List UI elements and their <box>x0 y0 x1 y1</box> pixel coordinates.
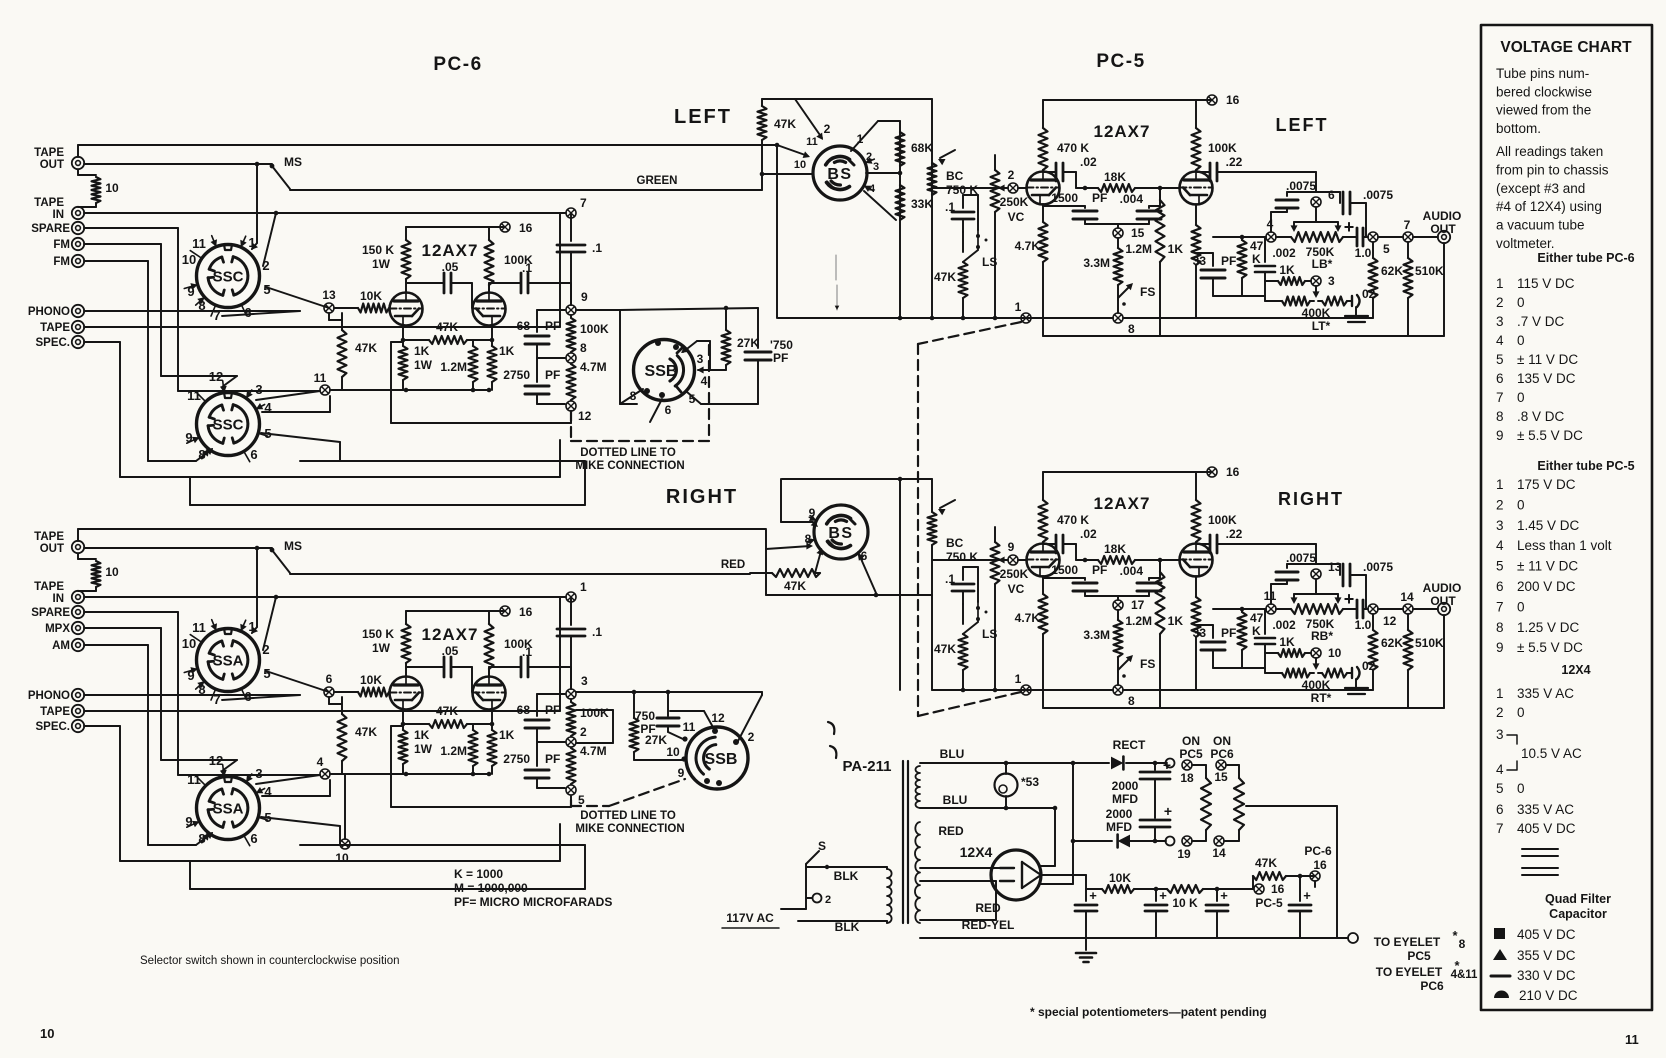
svg-text:+: + <box>1344 217 1355 237</box>
svg-text:PC-5: PC-5 <box>1096 51 1145 72</box>
svg-text:11: 11 <box>683 720 696 734</box>
resistor 4.7K (right) <box>1042 576 1044 594</box>
svg-text:1K: 1K <box>414 728 430 742</box>
resistor 100K plate load V1b (right channel) <box>488 611 490 624</box>
svg-text:0: 0 <box>1517 705 1525 720</box>
svg-text:PF: PF <box>545 752 560 766</box>
pin lead stubs selector top (left channel) <box>212 236 216 247</box>
wire RED bus <box>290 573 750 575</box>
svg-text:1.0: 1.0 <box>1355 246 1372 260</box>
svg-text:.0075: .0075 <box>1286 179 1316 193</box>
svg-text:1K: 1K <box>1168 614 1184 628</box>
svg-text:4: 4 <box>1267 217 1274 231</box>
svg-text:+: + <box>1344 589 1355 609</box>
diode rectifier top <box>1111 757 1123 770</box>
capacitor .0075 left (left) <box>1270 212 1272 232</box>
svg-text:9: 9 <box>1008 540 1015 554</box>
wire .22 to tone section (right) <box>1240 543 1316 545</box>
svg-text:117V AC: 117V AC <box>726 911 774 925</box>
svg-text:10K: 10K <box>360 289 382 303</box>
svg-text:10: 10 <box>40 1026 54 1041</box>
wire 12X4 heater leads <box>920 867 1000 869</box>
jack AUDIO OUT (left) <box>1438 231 1450 243</box>
resistor 18K (left) <box>1085 187 1098 189</box>
svg-text:1.2M: 1.2M <box>440 744 467 758</box>
svg-text:from pin to chassis: from pin to chassis <box>1496 162 1609 177</box>
resistor 27K (lower SSB) <box>633 692 635 718</box>
svg-text:17: 17 <box>1131 598 1145 612</box>
wire jack5 down (right channel) <box>84 644 148 646</box>
svg-text:4: 4 <box>1496 333 1504 348</box>
svg-text:LEFT: LEFT <box>674 106 732 128</box>
svg-text:TO EYELET: TO EYELET <box>1374 935 1441 949</box>
svg-text:4: 4 <box>701 374 708 388</box>
wire verticals BS lower to rail <box>899 595 901 690</box>
svg-text:4&11: 4&11 <box>1451 969 1478 981</box>
svg-text:47K: 47K <box>355 341 377 355</box>
svg-text:1.45 V DC: 1.45 V DC <box>1517 518 1580 533</box>
wire selector pin 2 diagonal (left channel) <box>263 213 276 266</box>
svg-text:2: 2 <box>580 725 587 739</box>
wire selector bottom pin3 (right channel) <box>256 775 320 784</box>
eyelet 6 (left) <box>1311 197 1321 207</box>
input jack TAPE (left channel) <box>72 321 84 333</box>
svg-text:8: 8 <box>1496 409 1504 424</box>
wire grid eyelet drop (right channel) <box>328 697 330 704</box>
input jack SPARE (right channel) <box>72 606 84 618</box>
wire BS lower pin 8 <box>766 546 810 549</box>
resistor 10 tape monitor (left channel) <box>77 170 79 175</box>
wire cathode V1b down (right channel) <box>491 709 493 724</box>
resistor 100K plate load V1b (left channel) <box>488 227 490 240</box>
svg-text:(except #3 and: (except #3 and <box>1496 181 1585 196</box>
wire top bus diagonal into BS pin 11 <box>777 145 808 156</box>
chassis double line (right) <box>1345 687 1368 689</box>
wire BC lower wiper to VC <box>933 559 955 561</box>
eyelet 19 <box>1182 836 1192 846</box>
resistor 3.3M (left) <box>1117 238 1119 248</box>
resistor 47K below LS (right) <box>959 634 968 670</box>
wire bottom rail to eyelet right <box>1347 937 1349 939</box>
resistor 1K tone (left) <box>1265 280 1278 282</box>
svg-text:1W: 1W <box>414 742 433 756</box>
svg-text:68K: 68K <box>911 141 933 155</box>
svg-text:115 V DC: 115 V DC <box>1517 276 1575 291</box>
wire TAPE OUT to MS switch (left channel) <box>84 163 272 165</box>
wire TAPE OUT to top bus (right channel) <box>77 529 79 541</box>
wire 1K bottom (left) <box>1195 265 1197 318</box>
resistor 18K (right) <box>1085 559 1098 561</box>
svg-text:4: 4 <box>1496 762 1504 777</box>
resistor 1K tone (right) <box>1265 652 1278 654</box>
capacitor 1500 PF (right) <box>1042 576 1044 578</box>
svg-text:± 11 V DC: ± 11 V DC <box>1517 559 1578 574</box>
wire SSB lower pin 12 lead <box>670 710 704 712</box>
tube SSB (upper) <box>634 340 695 401</box>
svg-text:PF: PF <box>545 368 560 382</box>
wire SPARE down (right channel) <box>84 611 178 613</box>
capacitor 68 PF (right channel) <box>537 693 565 695</box>
svg-text:BLU: BLU <box>943 793 968 807</box>
svg-text:10: 10 <box>105 181 119 195</box>
svg-text:1: 1 <box>1496 686 1504 701</box>
svg-text:9: 9 <box>1496 428 1504 443</box>
svg-text:VC: VC <box>1008 582 1025 596</box>
svg-text:RIGHT: RIGHT <box>1278 489 1344 509</box>
quad filter legend triangle 355 <box>1493 949 1507 960</box>
eyelet 9 input (PC-5 right) <box>1008 555 1018 565</box>
switch FS (right) <box>1117 657 1119 672</box>
wire SSB pin6 lead <box>650 399 662 422</box>
resistor 33K <box>896 185 905 220</box>
switch FS (left) <box>1117 285 1119 300</box>
wire to selector pin 1 (left channel) <box>256 164 258 243</box>
eyelet 16 (left) <box>1207 95 1217 105</box>
SSB lower wafer arcs <box>696 737 715 774</box>
svg-text:175 V DC: 175 V DC <box>1517 477 1576 492</box>
input jack SPEC. (left channel) <box>72 336 84 348</box>
wire SSB pin3 lead <box>683 341 697 352</box>
svg-text:47K: 47K <box>774 117 796 131</box>
wire eyelet9 to SSB rail <box>576 309 620 311</box>
svg-text:3: 3 <box>255 382 262 397</box>
svg-text:.004: .004 <box>1120 192 1144 206</box>
svg-text:OUT: OUT <box>40 543 64 555</box>
svg-text:6: 6 <box>665 403 672 417</box>
svg-text:SPEC.: SPEC. <box>35 337 70 349</box>
svg-text:PF= MICRO MICROFARADS: PF= MICRO MICROFARADS <box>454 895 612 909</box>
resistor 47K cathode link (right channel) <box>429 720 467 728</box>
svg-text:DOTTED LINE TO: DOTTED LINE TO <box>580 810 676 822</box>
svg-text:RB*: RB* <box>1311 629 1333 643</box>
eyelet 8 (left channel) <box>566 353 576 363</box>
svg-text:.1: .1 <box>522 261 532 275</box>
wire B+ vertical right of BS <box>931 99 933 318</box>
svg-text:K = 1000: K = 1000 <box>454 867 503 881</box>
svg-text:405 V DC: 405 V DC <box>1517 927 1576 942</box>
svg-text:10: 10 <box>182 636 196 651</box>
dashed mike line (lower SSB) <box>570 800 572 806</box>
wire BS top link <box>795 98 932 100</box>
svg-text:470 K: 470 K <box>1057 141 1089 155</box>
resistor 1K cathode V2b (left) <box>1195 204 1197 225</box>
resistor 47K cathode link (left channel) <box>429 336 467 344</box>
wire grid V2b (left) <box>1160 187 1180 189</box>
input jack TAPE OUT (right channel) <box>72 541 84 553</box>
svg-text:3: 3 <box>1496 518 1504 533</box>
input jack PHONO (right channel) <box>72 689 84 701</box>
svg-text:16: 16 <box>1226 465 1240 479</box>
svg-text:'750: '750 <box>770 338 793 352</box>
svg-text:250K: 250K <box>1000 195 1029 209</box>
wire routing box below selector (left channel) <box>189 477 191 505</box>
wire bottom diode to eyelet <box>1128 840 1166 842</box>
svg-text:9: 9 <box>1496 640 1504 655</box>
triode V2b 12AX7 (left) <box>1180 172 1213 205</box>
svg-text:2750: 2750 <box>503 752 530 766</box>
svg-text:4: 4 <box>1496 538 1504 553</box>
wire .22 to tone section (left) <box>1240 171 1316 173</box>
svg-text:62K: 62K <box>1381 636 1403 650</box>
svg-text:2: 2 <box>1496 705 1504 720</box>
resistor 47K feed PC-6 <box>1252 876 1254 889</box>
eyelet 1 ground (right) <box>1021 685 1031 695</box>
input jack MPX (right channel) <box>72 622 84 634</box>
quad filter legend dash 330 <box>1491 975 1510 978</box>
capacitor .02 output (right) <box>1347 672 1352 674</box>
svg-text:ON: ON <box>1182 734 1200 748</box>
svg-text:5: 5 <box>263 282 270 297</box>
eyelet 16 PC-5 feed <box>1254 884 1264 894</box>
svg-text:47: 47 <box>1250 239 1264 253</box>
svg-text:MIKE CONNECTION: MIKE CONNECTION <box>575 460 684 472</box>
svg-text:47K: 47K <box>355 725 377 739</box>
svg-text:LEFT: LEFT <box>1276 115 1329 135</box>
svg-text:Less than 1 volt: Less than 1 volt <box>1517 538 1612 553</box>
capacitor .05 interstage (left channel) <box>406 282 444 284</box>
wire .1 frame (left) <box>963 194 978 196</box>
svg-text:27K: 27K <box>645 733 667 747</box>
capacitor 68 PF (left channel) <box>537 309 565 311</box>
svg-text:SSC: SSC <box>213 269 244 286</box>
svg-text:405 V DC: 405 V DC <box>1517 821 1576 836</box>
svg-text:19: 19 <box>1177 847 1191 861</box>
svg-text:11: 11 <box>1625 1032 1639 1047</box>
svg-text:PF: PF <box>1221 254 1236 268</box>
wire bottom rails (left) <box>1196 317 1373 319</box>
svg-text:12: 12 <box>1383 614 1397 628</box>
svg-text:All readings taken: All readings taken <box>1496 144 1603 159</box>
wire selector bottom pin5 (left channel) <box>261 433 340 442</box>
svg-text:.1: .1 <box>522 645 532 659</box>
capacitor .02 feedback (left) <box>1042 170 1044 172</box>
svg-text:PF: PF <box>1092 191 1107 205</box>
svg-text:SSA: SSA <box>213 801 244 818</box>
svg-text:1: 1 <box>1496 477 1504 492</box>
potentiometer 400K (right) <box>1282 669 1310 678</box>
svg-text:voltmeter.: voltmeter. <box>1496 236 1555 251</box>
svg-text:RED: RED <box>721 559 745 571</box>
svg-text:6: 6 <box>1496 802 1504 817</box>
eyelet 9 out (left channel) <box>566 305 576 315</box>
svg-text:.002: .002 <box>1272 618 1296 632</box>
svg-text:+: + <box>1089 888 1097 903</box>
wire GREEN bus corner up to pin 10 line <box>761 174 763 190</box>
svg-text:2: 2 <box>262 642 269 657</box>
svg-text:.22: .22 <box>1226 527 1243 541</box>
svg-text:250K: 250K <box>1000 567 1029 581</box>
pin lead stubs BS upper <box>865 159 874 163</box>
resistor 68K <box>896 132 905 166</box>
wire 47K bottom to tone rail (left) <box>1242 295 1265 297</box>
svg-text:33: 33 <box>1193 626 1207 640</box>
svg-text:0: 0 <box>1517 497 1525 512</box>
svg-text:750 K: 750 K <box>946 550 978 564</box>
svg-text:+: + <box>1303 888 1311 903</box>
svg-text:OUT: OUT <box>40 159 64 171</box>
triode V1a 12AX7 (right channel) <box>390 677 423 710</box>
resistor 10K grid stopper (left channel) <box>334 307 358 309</box>
wire SSB top rail <box>620 308 758 310</box>
input jack FM (left channel) <box>72 238 84 250</box>
capacitor .22 output coupling (right) <box>1196 543 1210 545</box>
potentiometer 750K (left) <box>1276 236 1291 238</box>
svg-text:PC-6: PC-6 <box>1304 844 1332 858</box>
wire heater rail to right <box>1246 805 1337 807</box>
svg-text:ON: ON <box>1213 734 1231 748</box>
svg-text:PF: PF <box>545 319 560 333</box>
wire 400K left (right) <box>1264 653 1266 673</box>
eyelet 4 (left) <box>1266 232 1276 242</box>
wire SSB pin8 to left vertical <box>620 389 643 404</box>
wire plate V1b out (left channel) <box>488 283 490 293</box>
capacitor .002 (left) <box>1264 237 1266 262</box>
svg-text:200 V DC: 200 V DC <box>1517 579 1576 594</box>
svg-text:33K: 33K <box>911 197 933 211</box>
capacitor 1.0 (left) <box>1343 236 1357 238</box>
750K wiper bracket (left) <box>1315 207 1317 222</box>
wire 12X4 cathode output <box>1041 874 1086 876</box>
svg-text:1K: 1K <box>414 344 430 358</box>
voltage chart panel border <box>1481 25 1652 1010</box>
svg-text:18K: 18K <box>1104 170 1126 184</box>
capacitor 1.0 (right) <box>1343 608 1357 610</box>
input jack SPARE (left channel) <box>72 222 84 234</box>
wire TAPE IN to eyelet (left channel) <box>84 212 566 214</box>
svg-text:330 V DC: 330 V DC <box>1517 968 1576 983</box>
wire BS right vertical 68K/33K <box>899 121 901 318</box>
svg-text:1: 1 <box>248 235 255 250</box>
svg-text:1500: 1500 <box>1051 563 1078 577</box>
resistor 47K below LS (left) <box>959 262 968 298</box>
svg-text:1: 1 <box>1496 276 1504 291</box>
wire 33PF bottom (left) <box>1213 295 1242 297</box>
capacitor .22 output coupling (left) <box>1196 171 1210 173</box>
capacitor 2750 PF (left channel) <box>537 357 565 359</box>
wire primary connections <box>781 908 806 910</box>
svg-text:2: 2 <box>1496 295 1504 310</box>
wire SSB pin5 to cap bottom <box>687 392 701 404</box>
capacitor 33 PF (right) <box>1196 624 1213 626</box>
svg-text:5: 5 <box>1496 559 1504 574</box>
capacitor .004 (left) <box>1148 206 1150 208</box>
svg-text:1.25 V DC: 1.25 V DC <box>1517 620 1580 635</box>
svg-text:PHONO: PHONO <box>28 306 70 318</box>
wire SSB left vertical <box>619 310 621 404</box>
SSB lower pin dots <box>712 728 718 734</box>
jack AUDIO OUT (right) <box>1438 603 1450 615</box>
svg-text:bottom.: bottom. <box>1496 121 1541 136</box>
svg-text:7: 7 <box>1496 599 1504 614</box>
svg-text:RT*: RT* <box>1311 691 1332 705</box>
svg-text:15: 15 <box>1131 226 1145 240</box>
resistor 47K grid leak (left channel) <box>341 313 343 330</box>
svg-text:355 V DC: 355 V DC <box>1517 948 1576 963</box>
wire grid eyelet drop (left channel) <box>328 313 330 320</box>
wire LS bottom (left) <box>963 250 978 262</box>
svg-text:RED: RED <box>938 824 964 838</box>
svg-text:MFD: MFD <box>1112 792 1138 806</box>
wire diode to eyelet <box>1126 762 1166 764</box>
wire TAPE OUT to MS switch (right channel) <box>84 547 272 549</box>
svg-text:8: 8 <box>580 341 587 355</box>
svg-text:± 5.5 V DC: ± 5.5 V DC <box>1517 428 1583 443</box>
wire 68K bottom to BS pin3 <box>866 172 900 174</box>
svg-text:11: 11 <box>806 136 818 148</box>
wire ground rail segments (left) <box>995 317 1021 319</box>
svg-text:7: 7 <box>580 196 587 210</box>
eyelet 6 grid (right channel) <box>324 687 334 697</box>
resistor 4.7M (right channel) <box>567 748 576 784</box>
heater dropping resistor right <box>1234 778 1244 830</box>
wiper arrow BC 750K (lower) <box>940 500 955 508</box>
svg-text:GREEN: GREEN <box>637 175 678 187</box>
resistor 100K plate (right) <box>1192 500 1201 542</box>
chassis double line (left) <box>1345 315 1368 317</box>
rotary selector tube SSC (top, left channel) <box>197 245 260 308</box>
wire SPEC routing (left channel) <box>84 341 120 343</box>
svg-text:1: 1 <box>580 580 587 594</box>
svg-text:VC: VC <box>1008 210 1025 224</box>
svg-text:3: 3 <box>1496 727 1504 742</box>
svg-text:150 K: 150 K <box>362 243 394 257</box>
wire selector pin 5 to grid eyelet (left channel) <box>266 287 329 308</box>
wire top rail lower channel <box>782 478 932 480</box>
eyelet 4 (right channel) <box>320 769 330 779</box>
svg-text:10: 10 <box>335 851 349 865</box>
svg-text:12: 12 <box>209 369 223 384</box>
power transformer core <box>902 761 904 923</box>
svg-text:47K: 47K <box>1255 856 1277 870</box>
svg-text:210 V DC: 210 V DC <box>1519 988 1578 1003</box>
svg-text:16: 16 <box>519 221 533 235</box>
triode V2a 12AX7 (left) <box>1027 172 1060 205</box>
transformer secondary BLU winding <box>916 766 921 808</box>
svg-text:13: 13 <box>322 288 336 302</box>
wire PC-6 16 stub <box>1314 881 1316 887</box>
eyelet 13 (right) <box>1311 569 1321 579</box>
svg-text:0: 0 <box>1517 295 1525 310</box>
svg-text:± 5.5 V DC: ± 5.5 V DC <box>1517 640 1583 655</box>
eyelet 18 <box>1182 760 1192 770</box>
triode V1b 12AX7 (right channel) <box>473 677 506 710</box>
svg-text:12X4: 12X4 <box>1561 663 1590 677</box>
resistor 1.2M (left) <box>1159 188 1161 200</box>
svg-text:18K: 18K <box>1104 542 1126 556</box>
eyelet 8/below (right) <box>1113 685 1123 695</box>
eyelet 2 (right channel) <box>566 737 576 747</box>
eyelet 12 (right) <box>1368 604 1378 614</box>
wire selector pin 2 diagonal (right channel) <box>263 597 276 650</box>
resistor 47K (top, before BS upper) <box>761 140 763 174</box>
svg-text:PC5: PC5 <box>1407 949 1431 963</box>
capacitor .0075 left (right) <box>1270 584 1272 604</box>
wire 1K bottom (right) <box>1195 637 1197 690</box>
resistor 62K (left) <box>1372 242 1374 258</box>
svg-text:.1: .1 <box>592 241 602 255</box>
svg-text:1K: 1K <box>499 344 515 358</box>
svg-text:16: 16 <box>519 605 533 619</box>
svg-text:3: 3 <box>697 352 704 366</box>
svg-text:Quad Filter: Quad Filter <box>1545 892 1611 906</box>
svg-text:4.7M: 4.7M <box>580 744 607 758</box>
svg-text:8: 8 <box>1128 322 1135 336</box>
capacitor .05 interstage (right channel) <box>406 666 444 668</box>
svg-text:BLK: BLK <box>835 920 860 934</box>
svg-text:6: 6 <box>1496 579 1504 594</box>
wire BS lower bottom rail <box>766 594 932 596</box>
svg-text:.02: .02 <box>1080 155 1097 169</box>
